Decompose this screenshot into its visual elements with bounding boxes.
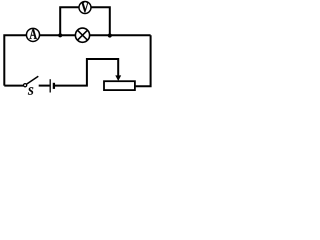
wire: left vertical and main horizontal to ammeter	[4, 35, 26, 85]
wire: right vertical down to rheostat right terminal	[136, 35, 151, 86]
wire: switch to battery	[39, 85, 50, 87]
switch S	[24, 76, 39, 94]
wire: voltmeter loop right leg	[91, 7, 110, 35]
rheostat R1	[104, 81, 135, 90]
wire: ammeter to lamp	[39, 34, 75, 36]
wire: voltmeter loop left leg	[60, 7, 78, 35]
wire: lamp to top-right corner	[90, 34, 151, 36]
node junction left	[58, 33, 62, 37]
node junction right	[108, 33, 112, 37]
wire: bottom left to switch	[4, 85, 23, 87]
lamp L1	[75, 28, 89, 42]
voltmeter V1	[79, 2, 91, 14]
ammeter A1	[26, 28, 39, 41]
wire: battery to wiper loop with arrow stem	[55, 59, 118, 86]
rheostat wiper arrowhead	[115, 75, 121, 81]
battery B1	[50, 79, 54, 92]
